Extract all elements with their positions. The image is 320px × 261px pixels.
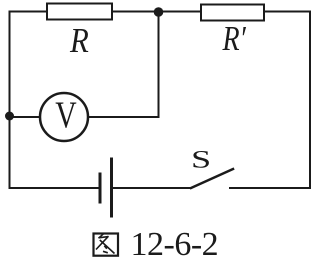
wire node A to R' — [159, 11, 202, 13]
battery BT1 — [100, 159, 112, 216]
svg-text:12-6-2: 12-6-2 — [131, 226, 219, 261]
wire node B to voltmeter — [10, 116, 41, 118]
wire voltmeter to middle branch — [88, 116, 159, 118]
wire top-left to R — [10, 11, 48, 13]
wire R' to top-right corner — [264, 11, 310, 13]
node A junction dot — [154, 7, 164, 17]
wire bottom-left to battery — [10, 187, 101, 189]
svg-text:R′: R′ — [222, 19, 247, 58]
svg-text:S: S — [191, 145, 211, 173]
switch S blade — [191, 169, 233, 188]
caption glyph 图 — [94, 234, 119, 256]
wire right rail — [309, 12, 311, 189]
voltmeter V — [40, 93, 88, 141]
wire left rail — [9, 12, 11, 189]
node B junction dot — [5, 112, 14, 121]
resistor R' — [201, 5, 264, 21]
wire middle vertical (node A down) — [158, 12, 160, 118]
wire bottom-right (switch to corner) — [230, 187, 310, 189]
wire R to node A — [112, 11, 159, 13]
svg-text:V: V — [55, 95, 77, 136]
wire battery to switch — [112, 187, 192, 189]
resistor R — [47, 4, 112, 20]
svg-text:R: R — [69, 22, 89, 60]
